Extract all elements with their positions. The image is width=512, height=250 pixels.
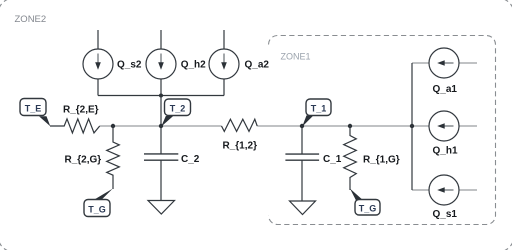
svg-text:R_{1,2}: R_{1,2} [223, 141, 258, 152]
wire stub left of Q_a1 [412, 62, 430, 64]
svg-text:C_2: C_2 [181, 154, 200, 165]
current source Q_a2 [209, 49, 239, 79]
wire vertical joining Q_a1 Q_h1 Q_s1 [411, 63, 413, 190]
svg-text:T_G: T_G [359, 204, 377, 214]
resistor R_{2,G} [107, 126, 120, 189]
current source Q_h2 [146, 49, 176, 79]
svg-text:Q_a1: Q_a1 [433, 84, 458, 95]
node T_1 flag [302, 99, 331, 127]
svg-text:Q_h2: Q_h2 [181, 60, 206, 71]
svg-text:ZONE2: ZONE2 [15, 14, 47, 25]
current source Q_s1 [429, 175, 459, 205]
wire stub right of Q_a1 [459, 62, 478, 64]
svg-text:Q_s2: Q_s2 [117, 60, 142, 71]
wire stub right of Q_s1 [459, 189, 478, 191]
node T_2 flag [161, 99, 190, 127]
svg-text:T_2: T_2 [170, 103, 186, 113]
current source Q_a1 [429, 48, 459, 78]
current source Q_s2 [83, 49, 113, 79]
wire stub above Q_h2 [160, 30, 162, 49]
node T_G flag (left) [84, 189, 113, 217]
zone ZONE1 dashed boundary (left side open) [269, 36, 496, 225]
svg-text:Q_h1: Q_h1 [433, 145, 458, 156]
wire stub above Q_a2 [223, 30, 225, 49]
svg-text:T_E: T_E [25, 103, 42, 113]
junction node T_1 [300, 124, 304, 128]
wire below Q_h2 to bus [160, 79, 162, 96]
wire bus joining top sources [98, 95, 224, 97]
wire stub right of Q_h1 [459, 125, 478, 127]
junction node between R_{2,E} and R_{2,G} [111, 124, 115, 128]
wire bus down to node T_2 [160, 96, 162, 127]
wire below Q_s2 to bus [97, 79, 99, 96]
junction on bus [159, 94, 163, 98]
resistor R_{2,E} [50, 119, 100, 133]
resistor R_{1,G} [344, 126, 357, 190]
resistor R_{1,2} [222, 119, 258, 131]
wire stub left of Q_s1 [412, 189, 430, 191]
junction node at R_{1,G} [348, 124, 352, 128]
svg-text:ZONE1: ZONE1 [281, 51, 311, 61]
wire stub left of Q_h1 [412, 125, 430, 127]
svg-text:R_{2,E}: R_{2,E} [63, 105, 99, 116]
svg-text:R_{1,G}: R_{1,G} [363, 154, 400, 165]
svg-text:Q_s1: Q_s1 [433, 209, 458, 220]
svg-text:Q_a2: Q_a2 [245, 60, 270, 71]
node T_E flag [20, 99, 50, 127]
svg-text:T_1: T_1 [311, 104, 327, 114]
capacitor C_2 [144, 126, 178, 201]
ground under C_2 [148, 201, 175, 215]
svg-text:T_G: T_G [88, 204, 106, 214]
junction node T_2 [159, 124, 163, 128]
svg-text:R_{2,G}: R_{2,G} [65, 154, 102, 165]
junction node right branch [410, 124, 414, 128]
wire stub above Q_s2 [97, 30, 99, 49]
wire below Q_a2 to bus [223, 79, 225, 96]
node T_G flag (right) [350, 189, 380, 215]
wire main horizontal net T_2/T_1 rail [100, 125, 412, 127]
capacitor C_1 [285, 126, 319, 201]
svg-text:C_1: C_1 [323, 154, 342, 165]
ground under C_1 [290, 201, 316, 215]
current source Q_h1 [429, 111, 459, 141]
